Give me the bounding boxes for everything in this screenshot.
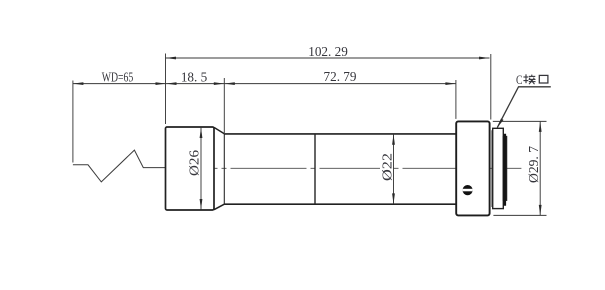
extension line block top (493, 120, 547, 122)
dimension WD=65 line (73, 83, 166, 85)
dimension 102.29 right arrow (479, 57, 490, 60)
svg-text:102. 29: 102. 29 (308, 44, 348, 59)
dimension 18.5 left arrow (166, 82, 177, 85)
centerline (166, 167, 522, 169)
c-mount leader line (497, 87, 551, 128)
svg-text:Ø26: Ø26 (187, 150, 202, 176)
dimension dia26 label (188, 149, 200, 178)
dimension 18.5 right arrow (214, 82, 225, 85)
object plane zigzag (73, 150, 166, 182)
c-mount label glyph kou (539, 75, 548, 83)
taper top edge (214, 127, 224, 133)
extension line object plane (72, 81, 74, 163)
dimension 72.79 right arrow (445, 82, 456, 85)
svg-text:WD=65: WD=65 (102, 69, 134, 84)
dimension dia26 line (200, 128, 202, 210)
barrel joint (314, 134, 316, 204)
front barrel (166, 127, 215, 210)
extension line front face (165, 54, 167, 125)
dimension 72.79 left arrow (224, 82, 235, 85)
mount block (456, 121, 489, 215)
ring step line (491, 130, 493, 207)
c-mount label glyph jie (523, 74, 535, 84)
set screw (463, 185, 473, 195)
extension line block right (490, 54, 492, 120)
svg-text:72. 79: 72. 79 (324, 69, 357, 84)
thread band (503, 137, 506, 201)
dimension WD=65 left arrow (73, 82, 84, 85)
dimension 102.29 left arrow (166, 57, 177, 60)
svg-text:C: C (516, 73, 523, 87)
svg-text:Ø29. 7: Ø29. 7 (526, 146, 541, 183)
taper joint line (223, 134, 225, 204)
svg-text:Ø22: Ø22 (379, 153, 394, 181)
svg-text:18. 5: 18. 5 (181, 69, 208, 84)
dimension 102.29 line (166, 57, 490, 59)
dimension WD=65 right arrow (156, 82, 167, 85)
extension line taper end (223, 78, 225, 134)
dimension dia22 line (393, 134, 395, 204)
c-mount ring (493, 128, 504, 208)
dimension 72.79 line (224, 83, 456, 85)
dimension 18.5 line (166, 83, 224, 85)
dimension dia22 label (380, 152, 392, 182)
main barrel top edge (224, 133, 456, 135)
taper bottom edge (214, 204, 224, 210)
c-mount leader arrow (497, 119, 504, 129)
extension line block bottom (493, 214, 546, 216)
extension line block left (455, 80, 457, 119)
main barrel bottom edge (224, 203, 456, 205)
dimension dia29.7 line (539, 121, 541, 215)
